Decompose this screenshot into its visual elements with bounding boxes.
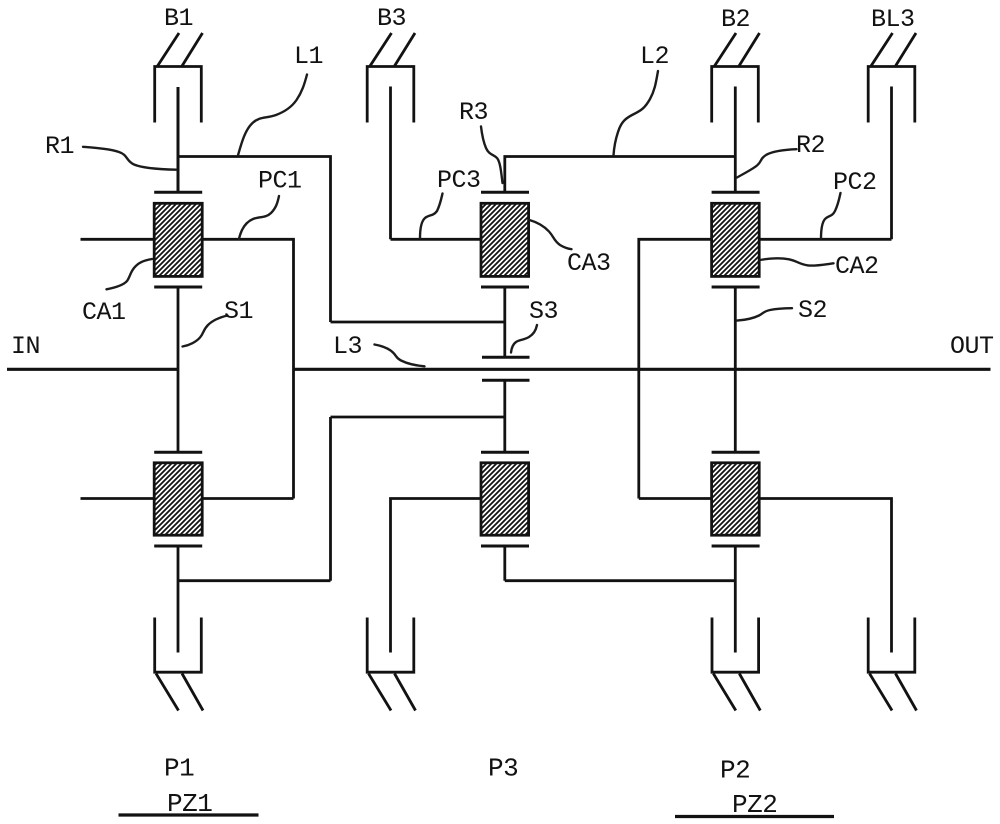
svg-text:PC1: PC1	[258, 167, 302, 196]
svg-text:CA1: CA1	[82, 298, 126, 327]
svg-text:R1: R1	[45, 132, 74, 161]
leader R3	[481, 127, 503, 184]
svg-text:S1: S1	[224, 297, 253, 326]
svg-text:B2: B2	[721, 5, 750, 34]
svg-text:R3: R3	[459, 98, 488, 127]
wire: lower carrier PC1	[202, 497, 293, 500]
planetary gearset P3 upper pinion	[481, 192, 529, 287]
brake B1 lower mirror symbol	[155, 618, 203, 711]
brake B2 symbol	[712, 33, 760, 123]
wire: carrier PC1 to output vertical	[202, 238, 293, 499]
leader PC3	[420, 194, 443, 239]
wire: B2 shaft to ring R2	[734, 87, 737, 193]
leader PC2	[821, 193, 841, 239]
underline PZ2	[675, 815, 834, 818]
wire: mirror L2	[505, 546, 736, 581]
wire: P1 lower shaft to brake	[177, 546, 180, 653]
svg-text:L2: L2	[640, 42, 669, 71]
wire: mirror L1 elbow	[178, 417, 505, 581]
wire: B1 shaft to ring R1	[177, 87, 180, 192]
wire: carrier PC3 horizontal	[391, 238, 482, 241]
svg-text:L3: L3	[333, 332, 362, 361]
svg-text:B3: B3	[377, 4, 406, 33]
wire: carrier CA1 left stub	[81, 238, 155, 241]
svg-text:P2: P2	[720, 756, 750, 786]
wire: BL3 shaft to carrier PC2	[890, 87, 893, 240]
leader PC1	[239, 196, 279, 239]
svg-text:BL3: BL3	[871, 5, 915, 34]
leader L3	[375, 345, 425, 367]
planetary gearset P2 upper pinion	[712, 192, 760, 287]
brake BL3 lower mirror symbol	[868, 618, 916, 711]
svg-text:B1: B1	[164, 4, 193, 33]
svg-text:S2: S2	[798, 296, 827, 325]
leader CA2	[760, 258, 834, 265]
leader CA1	[107, 259, 153, 289]
wire L2: ring R3 to ring R2	[505, 155, 736, 192]
wire: carrier PC2 horizontal	[759, 238, 892, 241]
wire: lower carrier PC3 and B3 lower shaft	[391, 497, 482, 652]
svg-text:IN: IN	[11, 332, 40, 361]
leader L2	[614, 71, 659, 155]
wire: sun S1 shaft	[177, 287, 180, 452]
wire: sun S3 lower shaft	[503, 380, 506, 452]
brake B1 symbol	[155, 33, 203, 123]
leader S2	[737, 308, 792, 320]
wire: sun S2 shaft	[734, 287, 737, 452]
svg-text:P3: P3	[488, 754, 518, 784]
svg-text:P1: P1	[164, 754, 194, 784]
wire: lower carrier PC2 and BL3 lower shaft	[759, 497, 892, 652]
svg-text:CA2: CA2	[835, 252, 879, 281]
wire: B3 shaft to carrier PC3	[389, 87, 392, 240]
output shaft OUT	[294, 368, 991, 371]
leader S3	[511, 325, 537, 353]
planetary gearset P1 upper pinion (ring bar, hatched pinion, sun bar)	[154, 192, 202, 287]
svg-text:PC2: PC2	[833, 168, 877, 197]
svg-text:PC3: PC3	[437, 166, 481, 195]
svg-text:L1: L1	[294, 42, 323, 71]
planetary gearset P3 lower mirror pinion	[481, 452, 529, 546]
planetary gearset P1 lower mirror pinion	[154, 452, 202, 546]
wire: lower carrier CA2	[639, 497, 712, 500]
svg-text:S3: S3	[529, 297, 558, 326]
svg-text:CA3: CA3	[567, 249, 611, 278]
leader L1	[238, 75, 307, 156]
leader lines	[83, 71, 841, 366]
underline PZ1	[119, 813, 259, 816]
leader CA3	[530, 220, 572, 249]
sun gear S3 lower end bar	[482, 379, 530, 382]
brake B3 lower mirror symbol	[367, 618, 415, 711]
svg-text:R2: R2	[796, 131, 825, 160]
input shaft IN	[7, 368, 178, 371]
planetary gearset P2 lower mirror pinion	[712, 452, 760, 546]
leader S1	[183, 316, 228, 347]
wire L1: ring R1 to sun S3	[178, 155, 505, 322]
brake B3 symbol	[367, 33, 415, 123]
brake BL3 symbol	[868, 33, 916, 123]
leader R1	[83, 147, 177, 170]
wire: carrier CA2 horizontal and vertical	[639, 238, 712, 499]
svg-text:OUT: OUT	[950, 332, 994, 361]
wire: sun S3 upper shaft	[503, 287, 506, 357]
wire: P2 lower shaft to brake	[734, 546, 737, 653]
wire: lower carrier CA1 stub	[81, 497, 155, 500]
brake B2 lower mirror symbol	[712, 618, 760, 711]
sun gear S3 upper end bar	[482, 356, 530, 359]
leader R2	[737, 149, 797, 177]
